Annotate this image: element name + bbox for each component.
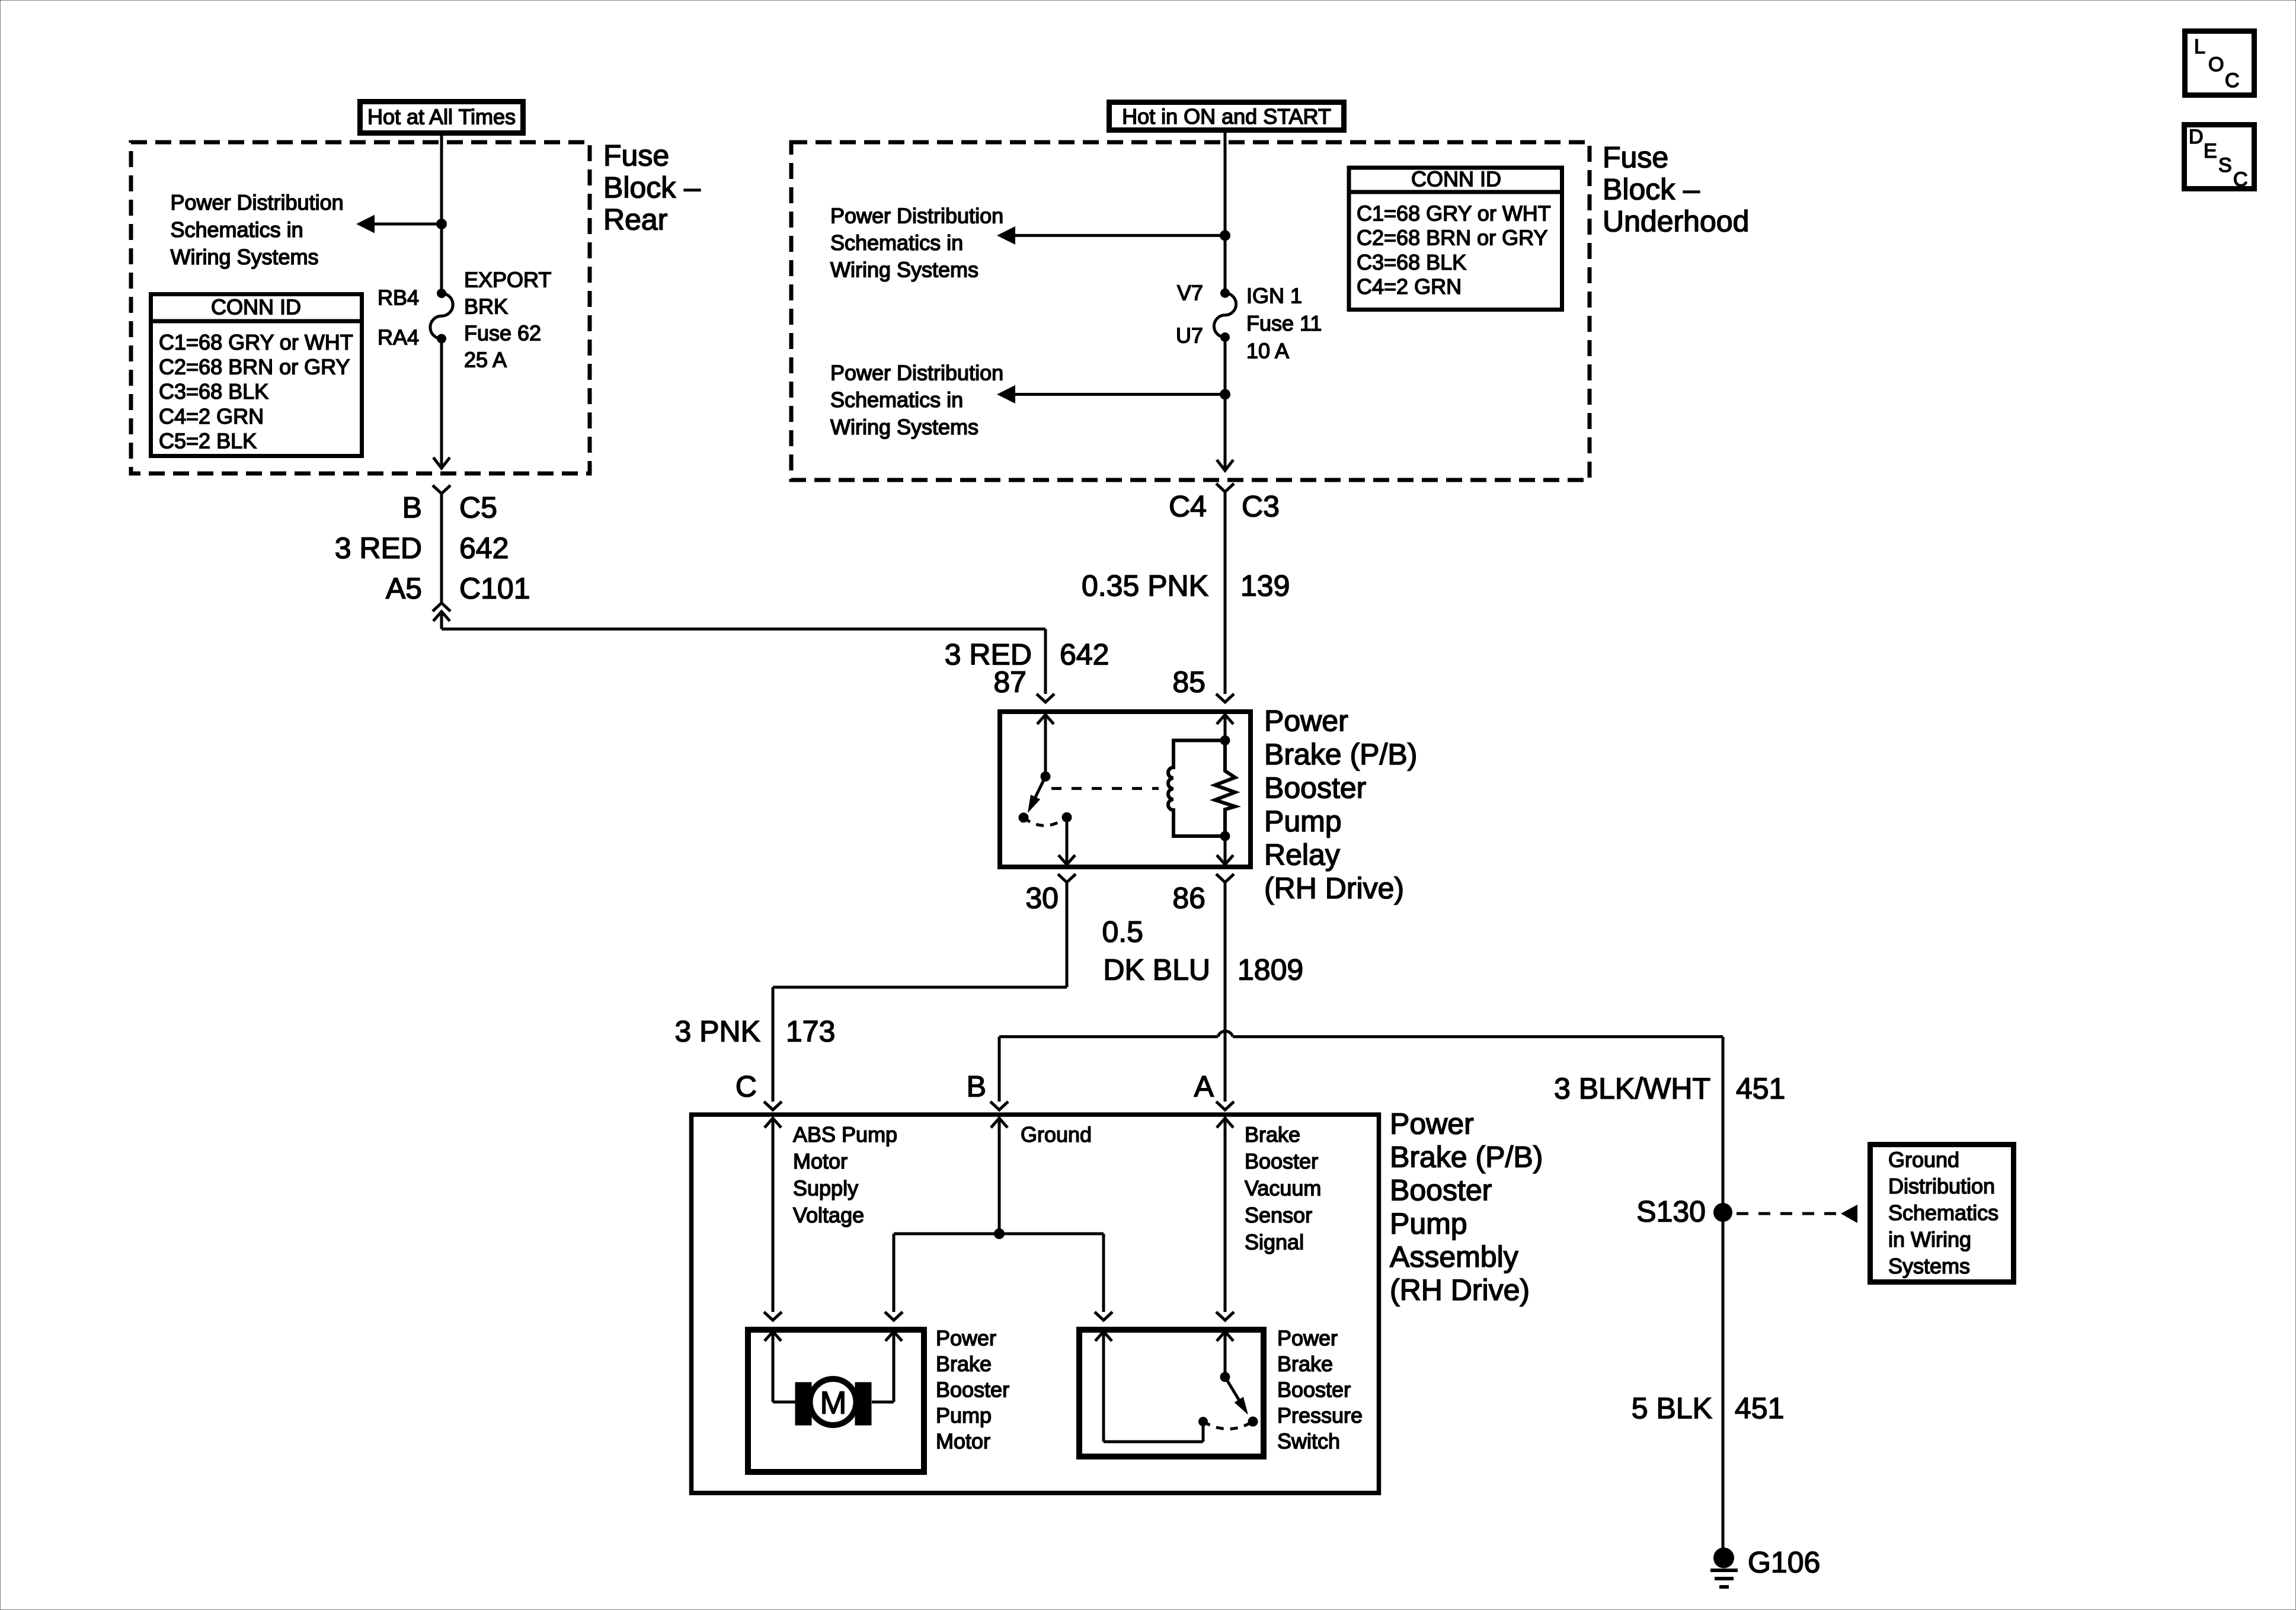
svg-text:O: O [2208,53,2224,76]
svg-text:C5: C5 [459,491,497,524]
svg-text:Brake: Brake [1277,1352,1333,1376]
svg-text:Fuse 11: Fuse 11 [1246,311,1322,335]
svg-text:Power Distribution: Power Distribution [830,360,1003,385]
svg-text:Supply: Supply [793,1176,858,1201]
svg-text:Brake: Brake [936,1352,992,1376]
svg-text:Fuse 62: Fuse 62 [464,321,541,345]
svg-text:3 PNK: 3 PNK [674,1015,760,1048]
svg-text:25 A: 25 A [464,347,507,372]
svg-text:EXPORT: EXPORT [464,267,551,292]
svg-text:Power: Power [936,1326,996,1350]
svg-text:Signal: Signal [1245,1230,1304,1254]
svg-text:C3=68 BLK: C3=68 BLK [1357,250,1466,274]
svg-text:Booster: Booster [1277,1377,1351,1401]
svg-text:Schematics: Schematics [1888,1201,1998,1225]
svg-text:451: 451 [1736,1072,1785,1105]
svg-text:Brake: Brake [1245,1122,1300,1147]
svg-text:0.5: 0.5 [1102,916,1143,949]
svg-text:451: 451 [1735,1392,1784,1425]
svg-text:Hot in ON and START: Hot in ON and START [1122,104,1331,129]
svg-text:Distribution: Distribution [1888,1174,1995,1198]
svg-text:Ground: Ground [1888,1147,1959,1172]
svg-text:Wiring Systems: Wiring Systems [830,257,978,281]
svg-text:A: A [1194,1070,1214,1103]
svg-text:0.35 PNK: 0.35 PNK [1082,569,1208,603]
svg-text:C: C [2225,69,2240,92]
svg-text:85: 85 [1172,665,1205,699]
svg-text:in Wiring: in Wiring [1888,1227,1971,1251]
svg-text:Pump: Pump [1264,805,1342,838]
svg-text:3 BLK/WHT: 3 BLK/WHT [1554,1072,1710,1105]
svg-text:Power Distribution: Power Distribution [830,203,1003,228]
svg-text:Ground: Ground [1021,1122,1092,1147]
svg-text:ABS Pump: ABS Pump [793,1122,897,1147]
svg-text:C4=2 GRN: C4=2 GRN [159,404,264,428]
svg-text:C2=68 BRN or GRY: C2=68 BRN or GRY [1357,226,1547,250]
svg-text:S130: S130 [1636,1195,1706,1228]
svg-text:C3: C3 [1242,490,1280,523]
svg-text:Assembly: Assembly [1390,1240,1518,1273]
svg-text:Rear: Rear [603,203,667,236]
svg-text:A5: A5 [386,572,422,605]
svg-text:87: 87 [993,665,1027,699]
svg-text:Pump: Pump [936,1403,992,1427]
svg-text:Vacuum: Vacuum [1245,1176,1321,1201]
svg-text:Relay: Relay [1264,838,1340,872]
svg-text:U7: U7 [1176,323,1203,347]
svg-text:3 RED: 3 RED [335,532,422,565]
svg-text:C101: C101 [459,572,530,605]
svg-text:Booster: Booster [936,1377,1009,1401]
svg-text:Underhood: Underhood [1603,205,1749,238]
svg-text:Hot at All Times: Hot at All Times [367,104,516,129]
svg-text:Block –: Block – [603,171,701,204]
svg-text:Block –: Block – [1603,173,1700,206]
svg-text:30: 30 [1025,882,1059,915]
svg-text:C2=68 BRN or GRY: C2=68 BRN or GRY [159,355,350,379]
svg-text:C: C [2233,168,2248,191]
svg-text:Booster: Booster [1390,1174,1492,1207]
svg-text:Schematics in: Schematics in [830,388,963,412]
svg-text:Booster: Booster [1264,772,1366,805]
svg-text:C4=2 GRN: C4=2 GRN [1357,274,1462,299]
svg-text:Wiring Systems: Wiring Systems [171,245,319,269]
svg-text:C5=2 BLK: C5=2 BLK [159,429,257,453]
svg-text:Voltage: Voltage [793,1203,864,1227]
svg-text:(RH Drive): (RH Drive) [1390,1273,1530,1307]
svg-text:RA4: RA4 [378,325,419,349]
svg-text:RB4: RB4 [378,285,419,309]
svg-text:Fuse: Fuse [1603,141,1668,174]
svg-text:M: M [820,1385,847,1421]
svg-text:D: D [2189,126,2204,148]
svg-text:Pump: Pump [1390,1207,1467,1240]
svg-text:CONN ID: CONN ID [211,295,301,319]
svg-text:642: 642 [1060,638,1109,671]
svg-text:10 A: 10 A [1246,338,1289,363]
svg-text:(RH Drive): (RH Drive) [1264,872,1404,905]
svg-text:Systems: Systems [1888,1254,1970,1278]
svg-text:Brake (P/B): Brake (P/B) [1264,738,1417,771]
svg-text:DK BLU: DK BLU [1103,953,1210,987]
svg-text:BRK: BRK [464,294,508,318]
svg-text:IGN 1: IGN 1 [1246,283,1302,308]
svg-text:Motor: Motor [793,1149,848,1173]
svg-text:C4: C4 [1169,490,1207,523]
svg-text:Booster: Booster [1245,1149,1318,1173]
svg-text:Schematics in: Schematics in [171,217,303,242]
svg-text:G106: G106 [1748,1546,1820,1579]
svg-text:5 BLK: 5 BLK [1632,1392,1712,1425]
svg-text:Switch: Switch [1277,1429,1340,1453]
svg-text:S: S [2218,154,2232,177]
svg-text:E: E [2204,140,2217,162]
svg-text:Power Distribution: Power Distribution [171,190,344,215]
svg-text:Pressure: Pressure [1277,1403,1363,1427]
svg-text:Power: Power [1390,1108,1474,1141]
svg-text:Schematics in: Schematics in [830,231,963,255]
svg-text:642: 642 [459,532,509,565]
svg-text:86: 86 [1172,882,1205,915]
svg-text:B: B [967,1070,986,1103]
svg-text:Power: Power [1277,1326,1338,1350]
svg-text:Wiring Systems: Wiring Systems [830,415,978,439]
svg-text:CONN ID: CONN ID [1411,167,1501,191]
svg-text:Power: Power [1264,705,1348,738]
svg-text:V7: V7 [1177,280,1203,305]
svg-text:173: 173 [786,1015,835,1048]
svg-text:B: B [402,491,422,524]
svg-text:1809: 1809 [1237,953,1303,987]
svg-text:C: C [736,1070,757,1103]
svg-text:Motor: Motor [936,1429,990,1453]
svg-text:Sensor: Sensor [1245,1203,1312,1227]
svg-text:C3=68 BLK: C3=68 BLK [159,379,268,404]
svg-text:C1=68 GRY or WHT: C1=68 GRY or WHT [1357,201,1551,225]
svg-text:L: L [2194,36,2205,58]
svg-text:139: 139 [1240,569,1290,603]
svg-text:Brake (P/B): Brake (P/B) [1390,1141,1543,1174]
svg-text:C1=68 GRY or WHT: C1=68 GRY or WHT [159,330,353,354]
svg-text:Fuse: Fuse [603,139,669,172]
